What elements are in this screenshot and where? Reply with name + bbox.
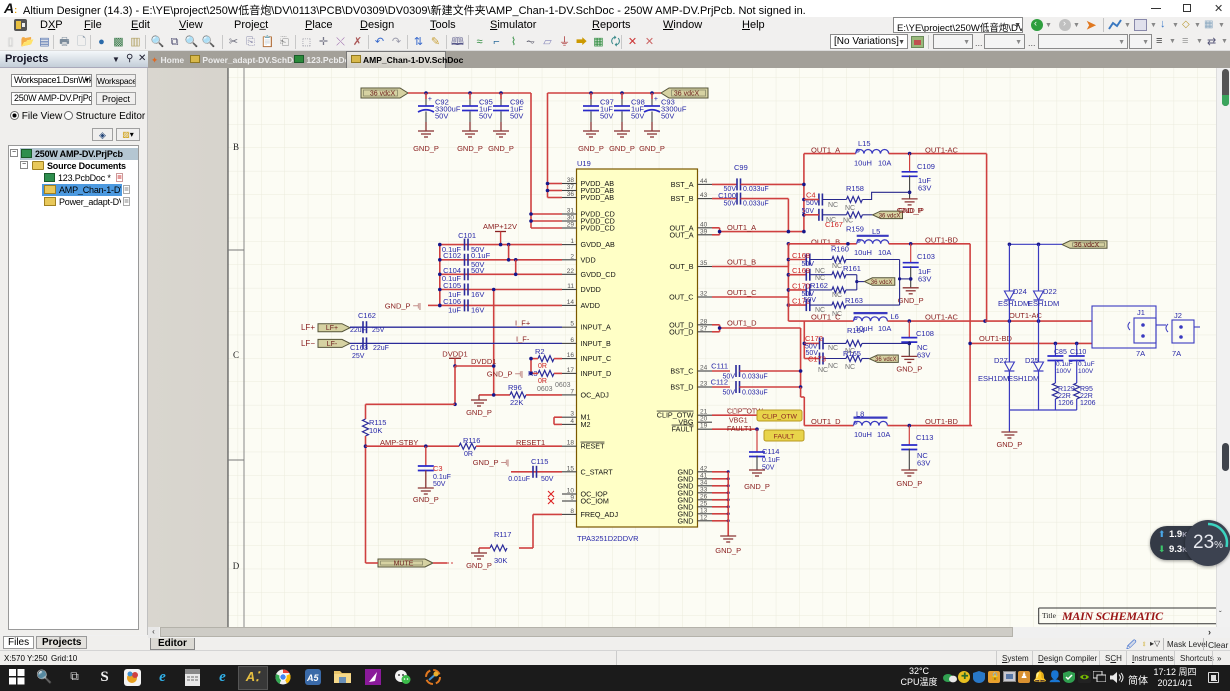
svg-text:D24: D24	[1013, 287, 1027, 296]
svg-text:AMP+12V: AMP+12V	[483, 222, 517, 231]
svg-text:NC: NC	[845, 364, 855, 371]
svg-text:2: 2	[570, 253, 574, 260]
svg-text:OC_IOM: OC_IOM	[581, 497, 609, 506]
svg-text:BST_D: BST_D	[670, 383, 693, 392]
svg-text:FAULT: FAULT	[774, 434, 795, 441]
svg-text:50V: 50V	[723, 390, 736, 397]
svg-text:OUT1-BD: OUT1-BD	[925, 236, 959, 245]
svg-text:38: 38	[567, 177, 575, 184]
svg-text:FAULT: FAULT	[672, 425, 694, 434]
svg-text:NC: NC	[828, 202, 838, 209]
svg-text:8: 8	[570, 508, 574, 515]
svg-text:R96: R96	[508, 383, 522, 392]
svg-text:0.1uF: 0.1uF	[433, 474, 451, 481]
svg-text:32: 32	[700, 291, 708, 298]
svg-text:C168: C168	[792, 251, 810, 260]
svg-text:13: 13	[700, 507, 708, 514]
svg-text:63V: 63V	[918, 275, 931, 284]
svg-text:FREQ_ADJ: FREQ_ADJ	[581, 510, 619, 519]
svg-text:C105: C105	[443, 281, 461, 290]
svg-text:10uH: 10uH	[854, 430, 872, 439]
svg-text:R163: R163	[845, 296, 863, 305]
svg-text:0R: 0R	[538, 378, 547, 385]
svg-text:20: 20	[700, 416, 708, 423]
svg-text:36 vdcX: 36 vdcX	[871, 280, 893, 286]
svg-text:ESH1DM: ESH1DM	[1008, 374, 1039, 383]
svg-text:GND_P: GND_P	[578, 144, 604, 153]
svg-text:DVDD: DVDD	[581, 285, 601, 294]
svg-text:10uH: 10uH	[854, 159, 872, 168]
svg-text:39: 39	[700, 228, 708, 235]
svg-text:LF+: LF+	[301, 323, 315, 332]
svg-text:26: 26	[700, 493, 708, 500]
svg-text:R95: R95	[1080, 386, 1093, 393]
svg-text:4: 4	[570, 418, 574, 425]
svg-text:GND_P: GND_P	[896, 365, 922, 374]
svg-text:J2: J2	[1174, 311, 1182, 320]
svg-text:C99: C99	[734, 163, 748, 172]
svg-text:OUT_D: OUT_D	[669, 327, 693, 336]
svg-text:36 vdcX: 36 vdcX	[370, 91, 396, 98]
svg-text:36 vdcX: 36 vdcX	[875, 357, 897, 363]
svg-text:1206: 1206	[1080, 400, 1096, 407]
svg-text:6: 6	[570, 337, 574, 344]
svg-text:RESET1: RESET1	[516, 438, 545, 447]
svg-text:C112: C112	[711, 378, 728, 387]
svg-text:31: 31	[567, 208, 575, 215]
svg-text:50V: 50V	[479, 112, 492, 121]
svg-text:R2: R2	[535, 347, 545, 356]
svg-text:L5: L5	[872, 227, 880, 236]
svg-text:50V: 50V	[806, 200, 819, 207]
svg-text:GND_P: GND_P	[466, 408, 492, 417]
svg-text:C102: C102	[443, 251, 461, 260]
svg-text:1uF: 1uF	[448, 306, 461, 315]
svg-text:34: 34	[700, 479, 708, 486]
svg-text:22: 22	[567, 268, 575, 275]
svg-text:C4: C4	[806, 191, 816, 200]
svg-text:30: 30	[567, 215, 575, 222]
svg-text:GND_P ⊣|: GND_P ⊣|	[473, 458, 509, 467]
svg-text:INPUT_A: INPUT_A	[581, 323, 612, 332]
svg-text:10A: 10A	[877, 430, 890, 439]
svg-text:33: 33	[700, 486, 708, 493]
svg-text:I_F+: I_F+	[515, 319, 531, 328]
svg-text:+: +	[428, 96, 432, 103]
svg-text:D22: D22	[1043, 287, 1057, 296]
svg-text:11: 11	[567, 283, 574, 290]
svg-text:ESH1DM: ESH1DM	[978, 374, 1009, 383]
svg-text:NC: NC	[832, 292, 842, 299]
svg-text:0.1uF: 0.1uF	[1056, 361, 1073, 368]
svg-text:16V: 16V	[471, 306, 484, 315]
svg-text:0.1uF: 0.1uF	[762, 457, 780, 464]
svg-text:50V: 50V	[541, 476, 554, 483]
svg-text:NC: NC	[832, 263, 842, 270]
svg-text:DVDD1: DVDD1	[471, 357, 496, 366]
svg-text:12: 12	[700, 514, 708, 521]
svg-text:M2: M2	[581, 420, 591, 429]
svg-text:Title: Title	[1042, 611, 1057, 620]
svg-text:OUT1_D: OUT1_D	[811, 417, 841, 426]
svg-text:43: 43	[700, 192, 708, 199]
svg-text:BST_A: BST_A	[671, 180, 694, 189]
svg-text:INPUT_D: INPUT_D	[581, 369, 612, 378]
svg-text:36: 36	[567, 191, 575, 198]
svg-text:1206: 1206	[1058, 400, 1074, 407]
svg-text:R159: R159	[846, 225, 864, 234]
svg-text:NC: NC	[828, 363, 838, 370]
svg-text:50V: 50V	[804, 297, 817, 304]
svg-text:42: 42	[700, 465, 708, 472]
svg-text:OUT1-AC: OUT1-AC	[1009, 311, 1043, 320]
svg-text:27: 27	[700, 325, 708, 332]
svg-text:NC: NC	[828, 345, 838, 352]
svg-text:19: 19	[700, 423, 708, 430]
svg-text:MAIN SCHEMATIC: MAIN SCHEMATIC	[1061, 609, 1164, 623]
svg-text:NC: NC	[815, 268, 825, 275]
svg-text:C162: C162	[358, 311, 376, 320]
svg-text:22uF: 22uF	[373, 345, 389, 352]
svg-text:10uH: 10uH	[854, 248, 872, 257]
svg-text:10A: 10A	[878, 248, 891, 257]
svg-text:D: D	[233, 561, 240, 571]
svg-text:C167: C167	[825, 220, 843, 229]
svg-text:R165: R165	[843, 349, 861, 358]
svg-text:1: 1	[570, 238, 574, 245]
svg-text:GND_P: GND_P	[466, 561, 492, 570]
svg-text:C114: C114	[762, 447, 779, 456]
svg-text:C115: C115	[531, 457, 548, 466]
svg-text:16: 16	[567, 352, 575, 359]
svg-text:GND_P: GND_P	[488, 144, 514, 153]
svg-text:RESET: RESET	[581, 442, 606, 451]
svg-text:INPUT_C: INPUT_C	[581, 354, 612, 363]
svg-text:GVDD_AB: GVDD_AB	[581, 240, 616, 249]
svg-text:C: C	[233, 350, 239, 360]
svg-text:63V: 63V	[917, 351, 930, 360]
svg-text:36 vdcX: 36 vdcX	[1074, 242, 1100, 249]
svg-text:AVDD: AVDD	[581, 301, 600, 310]
svg-text:63V: 63V	[918, 184, 931, 193]
svg-text:B: B	[233, 142, 239, 152]
svg-text:R129: R129	[1058, 386, 1075, 393]
svg-text:FAULT1: FAULT1	[727, 426, 752, 433]
svg-text:GND_P ⊣|: GND_P ⊣|	[385, 302, 421, 311]
svg-text:22R: 22R	[1080, 393, 1093, 400]
svg-text:OUT1_D: OUT1_D	[727, 319, 757, 328]
svg-text:DVDD1: DVDD1	[442, 350, 467, 359]
svg-text:NC: NC	[818, 367, 828, 374]
svg-text:C170: C170	[792, 281, 810, 290]
svg-text:40: 40	[700, 221, 708, 228]
svg-text:VDD: VDD	[581, 255, 596, 264]
svg-text:22uF: 22uF	[350, 327, 366, 334]
svg-text:10A: 10A	[878, 159, 891, 168]
svg-text:R160: R160	[831, 245, 849, 254]
svg-text:OUT1_C: OUT1_C	[727, 288, 757, 297]
svg-text:OUT_B: OUT_B	[670, 262, 694, 271]
svg-text:0603: 0603	[555, 382, 571, 389]
svg-text:C100: C100	[718, 191, 736, 200]
svg-text:GND_P: GND_P	[457, 144, 483, 153]
svg-text:C113: C113	[916, 433, 933, 442]
svg-text:GND_P: GND_P	[715, 546, 741, 555]
svg-text:25: 25	[700, 500, 708, 507]
svg-text:ESH1DM: ESH1DM	[998, 299, 1029, 308]
svg-text:C172: C172	[805, 334, 823, 343]
svg-text:J1: J1	[1137, 308, 1145, 317]
svg-text:30K: 30K	[494, 556, 507, 565]
svg-text:GND_P: GND_P	[413, 495, 439, 504]
svg-text:LF-: LF-	[327, 341, 338, 348]
svg-text:INPUT_B: INPUT_B	[581, 339, 612, 348]
svg-text:GND_P ⊣|: GND_P ⊣|	[487, 370, 523, 379]
svg-text:R162: R162	[810, 281, 828, 290]
svg-text:NC: NC	[843, 218, 853, 225]
svg-text:C103: C103	[917, 252, 935, 261]
svg-text:I_F-: I_F-	[516, 335, 530, 344]
svg-text:25V: 25V	[352, 353, 365, 360]
svg-text:7A: 7A	[1172, 349, 1181, 358]
svg-text:OUT1_C: OUT1_C	[811, 313, 841, 322]
svg-text:OUT1_A: OUT1_A	[727, 223, 756, 232]
svg-text:CLIP_OTW: CLIP_OTW	[762, 414, 797, 421]
svg-text:C109: C109	[917, 162, 935, 171]
svg-text:GND_P: GND_P	[744, 482, 770, 491]
svg-text:VBG1: VBG1	[729, 418, 748, 425]
svg-text:50V: 50V	[661, 112, 674, 121]
svg-text:50V: 50V	[433, 481, 446, 488]
svg-text:PVDD_CD: PVDD_CD	[581, 224, 615, 233]
svg-text:50V: 50V	[600, 112, 613, 121]
svg-text:0.1uF: 0.1uF	[1078, 361, 1095, 368]
svg-text:7A: 7A	[1136, 349, 1145, 358]
svg-text:50V: 50V	[802, 261, 815, 268]
svg-text:BST_B: BST_B	[671, 194, 694, 203]
svg-text:10: 10	[567, 488, 575, 495]
svg-text:C_START: C_START	[581, 467, 614, 476]
svg-text:OUT_C: OUT_C	[669, 293, 693, 302]
svg-text:TPA3251D2DDVR: TPA3251D2DDVR	[577, 534, 639, 543]
svg-text:100V: 100V	[1078, 368, 1094, 375]
svg-text:GND_P: GND_P	[609, 144, 635, 153]
svg-text:0.033uF: 0.033uF	[743, 186, 769, 193]
svg-text:NC: NC	[815, 275, 825, 282]
svg-text:R161: R161	[843, 264, 861, 273]
svg-text:100V: 100V	[1056, 368, 1072, 375]
svg-text:L15: L15	[858, 139, 871, 148]
svg-text:22K: 22K	[510, 398, 523, 407]
svg-text:C3: C3	[433, 464, 443, 473]
svg-text:U19: U19	[577, 159, 591, 168]
svg-text:C101: C101	[458, 231, 476, 240]
svg-text:MUTE: MUTE	[394, 561, 414, 568]
svg-text:0.033uF: 0.033uF	[742, 374, 768, 381]
svg-text:C110: C110	[1070, 349, 1086, 356]
svg-text:R117: R117	[494, 530, 511, 539]
svg-text:0.1uF: 0.1uF	[471, 251, 491, 260]
svg-text:50V: 50V	[510, 112, 523, 121]
svg-text:GND_P: GND_P	[898, 206, 924, 215]
svg-text:18: 18	[567, 440, 575, 447]
svg-text:D25: D25	[1025, 356, 1039, 365]
svg-text:35: 35	[700, 260, 708, 267]
svg-text:NC: NC	[845, 205, 855, 212]
svg-text:14: 14	[567, 299, 575, 306]
svg-text:25V: 25V	[372, 327, 385, 334]
svg-text:23: 23	[700, 381, 708, 388]
svg-text:L6: L6	[891, 312, 899, 321]
svg-text:0603: 0603	[537, 386, 553, 393]
svg-text:21: 21	[700, 409, 708, 416]
svg-text:7: 7	[570, 388, 574, 395]
svg-text:22R: 22R	[1058, 393, 1071, 400]
svg-text:50V: 50V	[802, 208, 815, 215]
svg-text:41: 41	[700, 472, 708, 479]
svg-text:C111: C111	[711, 362, 728, 371]
svg-text:50V: 50V	[471, 266, 484, 275]
svg-text:ESH1DM: ESH1DM	[1028, 299, 1059, 308]
svg-text:OUT1-BD: OUT1-BD	[979, 334, 1013, 343]
svg-text:37: 37	[567, 184, 575, 191]
svg-text:63V: 63V	[917, 459, 930, 468]
svg-text:R158: R158	[846, 184, 864, 193]
svg-text:29: 29	[567, 222, 575, 229]
svg-text:GVDD_CD: GVDD_CD	[581, 270, 616, 279]
svg-text:10A: 10A	[878, 324, 891, 333]
svg-text:9: 9	[570, 495, 574, 502]
svg-text:3: 3	[570, 411, 574, 418]
svg-text:16V: 16V	[471, 290, 484, 299]
svg-text:50V: 50V	[806, 350, 819, 357]
svg-text:OUT1-AC: OUT1-AC	[925, 313, 959, 322]
svg-text:OUT1-BD: OUT1-BD	[925, 417, 959, 426]
svg-text:GND_P: GND_P	[413, 144, 439, 153]
svg-text:C85: C85	[1054, 349, 1067, 356]
svg-text:GND_P: GND_P	[896, 479, 922, 488]
svg-text:28: 28	[700, 318, 708, 325]
svg-text:GND: GND	[678, 516, 694, 525]
svg-text:C108: C108	[916, 329, 934, 338]
svg-text:OUT1_B: OUT1_B	[727, 258, 756, 267]
svg-text:BST_C: BST_C	[670, 367, 693, 376]
svg-text:17: 17	[567, 367, 575, 374]
svg-text:0.033uF: 0.033uF	[743, 201, 769, 208]
svg-text:44: 44	[700, 178, 708, 185]
svg-text:0.033uF: 0.033uF	[742, 390, 768, 397]
svg-text:50V: 50V	[435, 112, 448, 121]
svg-text:GND_P: GND_P	[639, 144, 665, 153]
svg-text:15: 15	[567, 465, 575, 472]
svg-text:LF−: LF−	[301, 339, 315, 348]
svg-text:D27: D27	[994, 356, 1008, 365]
svg-text:OC_ADJ: OC_ADJ	[581, 390, 610, 399]
svg-text:C163: C163	[350, 343, 368, 352]
svg-text:24: 24	[700, 365, 708, 372]
svg-text:LF+: LF+	[326, 325, 338, 332]
svg-text:OUT_A: OUT_A	[670, 230, 694, 239]
svg-text:GND_P: GND_P	[898, 296, 924, 305]
svg-text:OUT1-AC: OUT1-AC	[925, 146, 959, 155]
svg-text:PVDD_AB: PVDD_AB	[581, 193, 615, 202]
svg-text:10K: 10K	[369, 426, 382, 435]
svg-text:5: 5	[570, 321, 574, 328]
svg-text:36 vdcX: 36 vdcX	[674, 91, 700, 98]
svg-text:+: +	[654, 96, 658, 103]
svg-text:50V: 50V	[724, 201, 737, 208]
svg-text:10uH: 10uH	[855, 324, 873, 333]
svg-text:0.01uF: 0.01uF	[508, 476, 530, 483]
svg-text:GND_P: GND_P	[996, 440, 1022, 449]
svg-text:50V: 50V	[631, 112, 644, 121]
svg-text:0R: 0R	[464, 451, 473, 458]
